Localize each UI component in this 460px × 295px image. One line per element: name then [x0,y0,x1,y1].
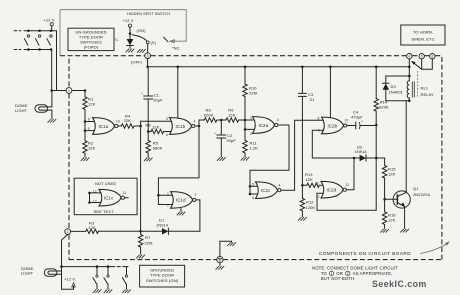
node IC2a pin1 junction [244,119,247,122]
dome light lamp (top) [15,103,52,113]
svg-text:(S): (S) [151,40,157,45]
op-amp gate IC2c [256,182,281,199]
svg-text:22M: 22M [145,240,153,245]
svg-text:+: + [214,131,216,135]
svg-text:(ON): (ON) [137,28,147,33]
svg-text:30µF: 30µF [226,138,236,143]
svg-text:IC2b: IC2b [328,123,338,128]
to horn siren box [401,25,445,45]
svg-text:OR: OR [336,271,343,276]
wire IC2c output up to IC2b pin 8 [281,116,324,190]
un-grounded switches label box [68,28,114,50]
node terminal 3 [131,53,151,65]
+12V supply rail [148,66,410,68]
transistor Q1 [385,101,431,229]
svg-text:SeekIC.com: SeekIC.com [372,279,427,289]
IC2b power pin wire [329,66,332,119]
svg-text:(FORD): (FORD) [84,45,99,50]
op-amp gate IC2d [315,181,349,198]
node C2 junction [220,119,223,122]
svg-text:12K: 12K [152,125,160,130]
svg-text:1: 1 [68,89,70,93]
resistor R15 [382,158,396,199]
svg-text:10: 10 [345,119,349,123]
SPDT NC contact [164,37,180,50]
wire IC2d pin12 feedback [317,158,376,210]
ground at switch pivot [137,49,146,53]
ground under diode [126,49,135,53]
FORD switch bottom rail [14,49,52,51]
node relay coil bottom [408,75,411,102]
SPDT switch arm [132,28,156,45]
door switch S2 [36,29,41,50]
relay armature contacts [411,59,432,69]
svg-text:11: 11 [346,183,350,187]
svg-text:IC1a: IC1a [99,124,109,129]
wire lamp feed [51,91,53,119]
node terminal 1 [66,88,72,94]
node C3/R12/R13 junction [301,184,304,187]
wire IC1b output down to IC1d inputs [158,126,199,195]
wire terminal 2 to R3 [71,230,86,232]
svg-text:3: 3 [147,54,149,58]
svg-text:8: 8 [318,116,320,120]
svg-text:12K: 12K [88,146,96,151]
IC1d ground pin [177,208,186,215]
SPDT +12V terminal [123,18,134,35]
dome light bus (GM) [62,266,129,268]
svg-text:9: 9 [88,127,90,131]
node R4 junction [139,125,142,128]
svg-text:680K: 680K [153,146,163,151]
node terminal 2 [65,229,71,235]
door switch S1 [24,29,29,50]
diode D2 [354,144,376,161]
svg-text:12K: 12K [388,171,396,176]
resistor R3 [86,220,141,233]
svg-text:IC1b: IC1b [176,124,186,129]
wire R4 junction to IC1b input [141,121,172,126]
op-amp gate IC2a [250,116,279,136]
IC1b power pin wire [177,66,180,119]
resistor R4 [118,113,141,128]
svg-text:12K: 12K [388,218,396,223]
svg-text:SWITCHES (GM): SWITCHES (GM) [146,278,179,283]
circuit board dashed outline [60,56,442,260]
op-amp gate IC1b [166,117,196,137]
svg-text:TO HORN,: TO HORN, [413,29,433,34]
wire ground terminal chassis side [216,263,225,270]
capacitor C3 [298,66,315,186]
node R3/R7/D1 junction [139,230,142,233]
wire terminal 1 to R1 [72,90,85,92]
diode D1 [141,200,200,235]
svg-text:LIGHT: LIGHT [15,108,28,113]
svg-text:1N914: 1N914 [355,149,368,154]
capacitor C1 [141,67,163,132]
watermark [372,279,427,289]
svg-text:6: 6 [431,55,433,59]
node Q1 base junction [383,198,386,201]
svg-text:2: 2 [250,132,252,136]
wire IC2d output up to D2 node [346,158,354,190]
svg-text:3: 3 [277,118,279,122]
svg-text:5: 5 [252,182,254,186]
wire R4 junction down to R3/D1 line [140,126,142,231]
svg-text:IC2d: IC2d [327,188,337,193]
GM door switch S6 [122,267,131,293]
op-amp gate IC1a [93,118,120,135]
svg-text:11: 11 [123,191,127,195]
wire terminal 4 to relay coil [408,59,411,81]
svg-text:+12 V: +12 V [123,18,134,23]
resistor R12 [300,185,315,216]
svg-text:10: 10 [116,119,120,123]
node C4 junction [375,124,378,158]
svg-text:1N914: 1N914 [156,222,169,227]
svg-text:NOT USED: NOT USED [95,181,116,186]
wire lamp to +12V pigtail [62,267,74,290]
wire +12V feed down [56,31,58,91]
svg-text:12K: 12K [88,225,96,230]
svg-text:4: 4 [194,120,196,124]
svg-text:6: 6 [166,133,168,137]
svg-text:BUT NOT BOTH.: BUT NOT BOTH. [321,276,356,281]
svg-text:4: 4 [279,183,281,187]
svg-text:*NC: *NC [172,45,180,50]
svg-text:IC1d: IC1d [176,198,186,203]
node terminal 4 [407,54,412,59]
resistor R10 [243,66,257,121]
svg-text:IC2a: IC2a [259,123,269,128]
svg-text:TL: TL [115,38,119,42]
svg-text:SIREN, ETC: SIREN, ETC [411,36,434,41]
svg-text:620K: 620K [379,105,389,110]
resistor R9 [221,108,253,123]
wire ground terminal to internal ground [220,241,236,256]
IC1d input tie [157,194,172,205]
+12V pigtail terminal [64,277,75,290]
ground under dome light [48,119,57,123]
svg-text:D3: D3 [391,84,397,89]
svg-text:R7: R7 [145,235,151,240]
svg-text:6: 6 [252,196,254,200]
GM door switch S5 [104,265,113,293]
diode D3 [383,76,410,101]
ground under C2 [217,157,226,161]
capacitor C2 [214,120,236,157]
GM door switch S4 [93,265,102,293]
svg-text:RL1: RL1 [421,86,429,91]
svg-text:COMPONENTS ON CIRCUIT BOARD: COMPONENTS ON CIRCUIT BOARD [319,251,411,256]
svg-text:5: 5 [166,117,168,121]
svg-text:8: 8 [88,118,90,122]
node terminal 5 [419,54,424,59]
ground under R11 [241,157,250,161]
svg-text:4: 4 [408,55,410,59]
ground under R12 [298,217,307,221]
wire node to terminal 1 [52,90,66,92]
grounded switches label box [140,265,185,287]
svg-text:1: 1 [250,116,252,120]
svg-text:RELAY: RELAY [421,92,434,97]
svg-text:+12 V: +12 V [64,277,75,282]
svg-text:R6: R6 [146,122,152,127]
resistor R16 [382,199,396,228]
svg-text:2N2222A: 2N2222A [413,192,430,197]
IC2c input tie [249,182,258,200]
svg-text:IC1c: IC1c [104,196,114,201]
wire terminal 3 to +12V rail [146,59,149,69]
svg-text:NOTE: CONNECT DOME LIGHT CIRCU: NOTE: CONNECT DOME LIGHT CIRCUIT [312,266,398,271]
svg-text:LIGHT: LIGHT [21,271,34,276]
svg-text:AS APPROPRIATE,: AS APPROPRIATE, [353,271,393,276]
svg-text:R12: R12 [306,200,314,205]
svg-text:12: 12 [316,195,320,199]
resistor R11 [243,129,259,156]
node D2/IC2d junction [353,157,356,160]
FORD +12V terminal [44,18,55,31]
IC1a input tie [84,118,95,132]
op-amp gate IC2b [318,117,348,134]
node A D2/R15 junction [375,157,385,160]
svg-text:620K: 620K [204,112,214,117]
wire IC2a output to IC2c inputs [250,125,289,186]
capacitor C4 [347,110,376,130]
svg-text:13: 13 [315,181,319,185]
svg-text:(OFF): (OFF) [131,60,143,65]
svg-text:22K: 22K [124,118,132,123]
svg-text:22M: 22M [249,91,257,96]
svg-text:.01: .01 [309,97,315,102]
hidden SPDT switch label and pointer [60,10,186,56]
ground terminal on board edge [217,256,223,262]
svg-text:+12 V: +12 V [44,18,55,23]
svg-text:3: 3 [195,193,197,197]
svg-text:12K: 12K [228,112,236,117]
svg-text:1N4001: 1N4001 [389,90,404,95]
svg-text:12K: 12K [306,177,314,182]
door switch S3 [47,29,52,50]
ground under R16 [380,229,389,233]
relay RL1 coil [407,81,434,101]
wire R10 down to pin2 [244,120,254,131]
not used box [74,178,137,215]
svg-text:12K: 12K [88,102,96,107]
svg-text:HIDDEN SPDT SWITCH: HIDDEN SPDT SWITCH [127,12,170,16]
components on circuit board label [319,242,450,257]
relay mechanical link [417,71,419,97]
svg-text:2: 2 [67,230,69,234]
ground under Q1 emitter [400,229,409,233]
ground under R7 [136,255,145,259]
node C1/R5/R6 junction [147,130,150,133]
resistor R2 [83,131,96,157]
wire IC2b pin9 from D2 node [312,130,353,158]
svg-text:SEE TEXT: SEE TEXT [94,209,114,214]
op-amp gate IC1c [93,189,129,206]
svg-text:+: + [361,120,363,124]
svg-text:1.2K: 1.2K [250,146,259,151]
IC1c input tie [88,192,101,204]
ground under R5 [144,158,153,162]
resistor R6 [146,122,172,133]
resistor R1 [83,89,96,121]
svg-text:2: 2 [167,203,169,207]
node IC1b output [195,125,200,128]
resistor R5 [146,132,163,158]
resistor R8 [199,108,221,127]
dome light lamp (bottom) [21,266,62,277]
wire switch pole to terminal 3 [147,44,149,53]
svg-text:120K: 120K [306,205,316,210]
wire terminal 2 down to dome light bus [60,235,67,268]
svg-text:+: + [141,92,143,96]
resistor R7 [138,231,152,254]
node terminal 6 [430,54,435,59]
wire switch rail down to dome light node [50,50,53,92]
op-amp gate IC1d [167,192,197,209]
resistor R14 [374,66,389,126]
svg-text:5: 5 [421,55,423,59]
FORD switch top rail [14,30,57,32]
note text [312,266,398,282]
svg-text:Q1: Q1 [413,186,419,191]
svg-text:IC2c: IC2c [261,188,271,193]
suppression diode at ON contact [115,34,134,49]
resistor R13 [302,172,323,188]
svg-text:30µF: 30µF [153,98,163,103]
svg-text:TO: TO [321,271,328,276]
svg-text:470µF: 470µF [351,114,363,119]
ground under R2 [81,157,90,161]
